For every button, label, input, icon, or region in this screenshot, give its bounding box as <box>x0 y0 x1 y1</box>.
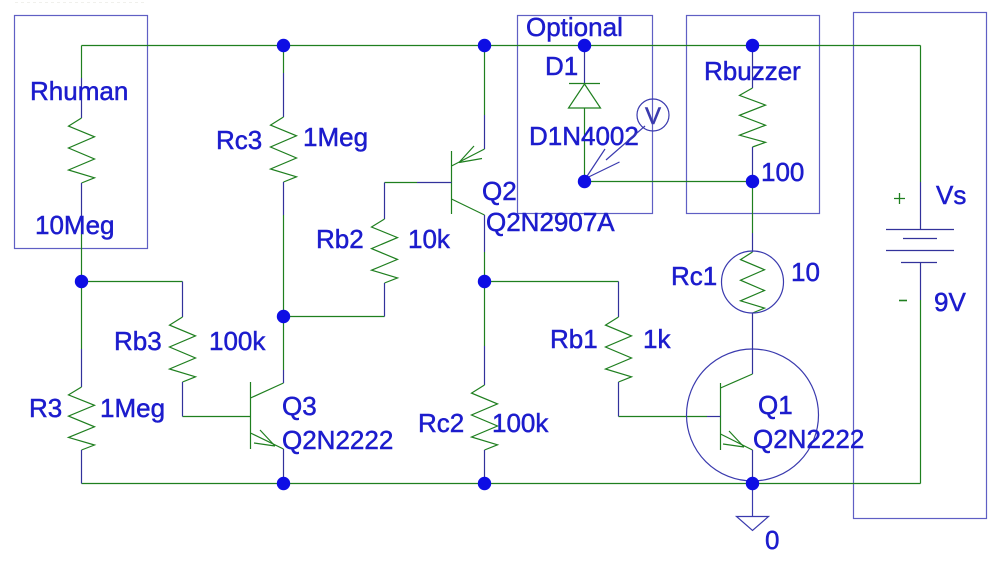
svg-text:Q1: Q1 <box>758 390 793 420</box>
svg-text:1Meg: 1Meg <box>100 393 165 423</box>
battery Vs plate2 <box>903 238 937 240</box>
node dot junction node C (Q2,Rc2,Rb1) <box>478 275 491 288</box>
transistor Q2 collector pin <box>484 215 486 252</box>
probe circle around Q1 <box>687 349 819 481</box>
transistor Q3 base bar <box>250 382 252 449</box>
resistor Rbuzzer pin bottom <box>752 147 754 182</box>
transistor Q1 base pin <box>707 416 721 418</box>
wire Rc3 top <box>283 46 285 74</box>
svg-text:Rc3: Rc3 <box>216 125 262 155</box>
ground triangle <box>737 517 769 531</box>
wire D1 anode to node D <box>584 108 586 181</box>
wire Rhuman top <box>81 46 83 79</box>
transistor Q2 emitter arrow <box>459 146 482 163</box>
diode D1 triangle <box>569 84 601 108</box>
node dot junction top rail / Q2 emitter <box>478 39 491 52</box>
resistor Rc3 pin bottom <box>283 182 285 215</box>
resistor Rc1 body <box>741 252 765 313</box>
transistor Q3 emitter diagonal <box>251 433 284 449</box>
node dot junction top rail / D1 <box>578 39 591 52</box>
resistor Rc1 pin bottom <box>752 313 754 374</box>
wire node A to Rb3 <box>82 281 183 283</box>
svg-text:0: 0 <box>765 525 779 555</box>
node dot junction top rail / Rc3 <box>277 39 290 52</box>
box around Vs <box>854 13 987 519</box>
battery Vs plus sign <box>894 193 905 204</box>
svg-text:Rhuman: Rhuman <box>30 76 128 106</box>
transistor Q2 base pin <box>417 182 452 184</box>
node dot junction node A (Rhuman,R3,Rb3) <box>75 275 88 288</box>
svg-text:Optional: Optional <box>526 12 623 42</box>
transistor Q1 emitter pin <box>752 450 754 479</box>
transistor Q1 emitter arrow <box>723 431 744 447</box>
node dot junction bottom rail / Q3 emitter <box>277 477 290 490</box>
svg-text:Vs: Vs <box>936 180 966 210</box>
svg-text:Q3: Q3 <box>282 391 317 421</box>
svg-text:10Meg: 10Meg <box>35 210 115 240</box>
resistor Rc2 pin bottom <box>484 450 486 484</box>
wire Rb3 to Q3 base <box>183 416 251 418</box>
box Optional <box>518 16 653 214</box>
resistor Rb2 pin top <box>384 183 386 220</box>
resistor Rhuman pin bottom <box>81 183 83 222</box>
resistor Rb3 pin bottom <box>182 382 184 417</box>
svg-text:Rc2: Rc2 <box>418 408 464 438</box>
svg-text:1k: 1k <box>643 324 671 354</box>
current-probe circle around Rc1 <box>722 251 784 313</box>
battery Vs pin bottom <box>920 262 922 300</box>
resistor Rbuzzer pin top <box>752 48 754 88</box>
battery Vs minus sign <box>899 300 907 302</box>
page border fragment <box>15 2 145 4</box>
svg-text:V: V <box>645 103 661 130</box>
resistor Rbuzzer body <box>740 88 766 147</box>
resistor Rhuman body <box>69 118 95 183</box>
diode D1 cathode bar <box>569 83 600 85</box>
svg-text:1Meg: 1Meg <box>303 122 368 152</box>
svg-text:D1: D1 <box>545 51 578 81</box>
svg-text:Q2N2222: Q2N2222 <box>282 425 393 455</box>
transistor Q1 emitter diagonal <box>721 434 753 450</box>
wire node C to Rb1 <box>485 281 619 283</box>
wire bottom rail <box>82 483 921 485</box>
wire Vs minus to bottom rail <box>920 300 922 484</box>
wire node D to Rbuzzer bottom <box>585 181 753 183</box>
resistor R3 pin bottom <box>81 450 83 484</box>
node dot junction bottom rail / Q1 emitter / ground <box>746 477 759 490</box>
ground stem <box>752 484 754 517</box>
wire node B to Rb2 <box>284 316 385 318</box>
transistor Q2 collector diagonal <box>452 199 485 215</box>
transistor Q3 collector pin <box>283 370 285 383</box>
transistor Q1 base bar <box>720 383 722 450</box>
wire node C to Rc2 <box>484 281 486 346</box>
wire Q2 collector to node C <box>484 252 486 281</box>
wire Rb2 top <box>385 182 418 184</box>
box around Rbuzzer <box>687 16 820 214</box>
wire Q2 emitter to top rail <box>484 46 486 116</box>
svg-text:Rb3: Rb3 <box>114 326 162 356</box>
svg-text:R3: R3 <box>29 393 62 423</box>
battery Vs plate1 <box>886 229 954 231</box>
wire Vs plus to top rail <box>920 46 922 183</box>
resistor Rb2 pin bottom <box>384 283 386 317</box>
resistor Rhuman pin top <box>81 78 83 118</box>
node dot junction top rail / Rbuzzer <box>746 39 759 52</box>
transistor Q2 emitter diagonal <box>452 149 485 166</box>
wire Rc3 bottom <box>283 215 285 316</box>
transistor Q2 emitter pin <box>484 115 486 149</box>
svg-text:100k: 100k <box>209 326 266 356</box>
transistor Q2 base bar <box>451 151 453 214</box>
resistor Rb2 body <box>372 219 398 283</box>
voltage probe arrow shaft <box>606 126 645 160</box>
battery Vs plate4 <box>901 262 937 264</box>
resistor Rb1 body <box>606 317 632 382</box>
svg-text:Q2N2907A: Q2N2907A <box>486 207 615 237</box>
svg-text:10: 10 <box>791 257 820 287</box>
battery Vs plate3 <box>886 250 954 252</box>
transistor Q3 collector diagonal <box>251 383 284 398</box>
node dot junction node B (Rc3,Q3,Rb2) <box>277 310 290 323</box>
svg-text:Rb2: Rb2 <box>316 224 364 254</box>
voltage probe circle <box>637 99 669 131</box>
svg-text:100: 100 <box>761 157 804 187</box>
svg-text:Q2: Q2 <box>482 176 517 206</box>
node dot junction bottom rail / Rc2 <box>478 477 491 490</box>
svg-text:100k: 100k <box>492 408 549 438</box>
resistor R3 pin top <box>81 349 83 387</box>
svg-text:9V: 9V <box>934 287 966 317</box>
svg-text:Rc1: Rc1 <box>671 261 717 291</box>
resistor Rb3 body <box>170 317 196 382</box>
diode D1 pin top <box>584 46 586 84</box>
box around Rhuman <box>15 16 148 249</box>
battery Vs pin top <box>920 182 922 229</box>
resistor Rc3 body <box>271 117 297 182</box>
wire Rbuzzer node to Rc1 <box>752 182 754 234</box>
voltage probe arrowhead <box>586 149 620 179</box>
resistor Rb3 pin top <box>182 282 184 318</box>
svg-text:Rbuzzer: Rbuzzer <box>704 56 801 86</box>
wire top rail <box>82 45 921 47</box>
resistor Rc2 pin top <box>484 346 486 385</box>
transistor Q1 collector diagonal <box>721 374 753 388</box>
resistor Rc3 pin top <box>283 73 285 117</box>
resistor Rc1 pin top <box>752 233 754 252</box>
resistor Rc2 body <box>472 385 498 450</box>
node dot junction Rbuzzer bottom / Rc1 <box>746 175 759 188</box>
node dot junction node D (D1,probe,wire) <box>578 175 591 188</box>
transistor Q3 emitter arrow <box>254 430 275 446</box>
transistor Q3 emitter pin <box>283 449 285 479</box>
svg-text:Rb1: Rb1 <box>550 324 598 354</box>
wire Rhuman bottom <box>81 222 83 282</box>
resistor R3 body <box>69 387 95 450</box>
wire node A to R3 <box>81 282 83 349</box>
resistor Rb1 pin bottom <box>618 382 620 417</box>
wire node B to Q3 collector <box>283 316 285 370</box>
wire Rb1 to Q1 base <box>619 416 708 418</box>
svg-text:10k: 10k <box>408 224 451 254</box>
svg-text:Q2N2222: Q2N2222 <box>753 424 864 454</box>
resistor Rb1 pin top <box>618 282 620 318</box>
